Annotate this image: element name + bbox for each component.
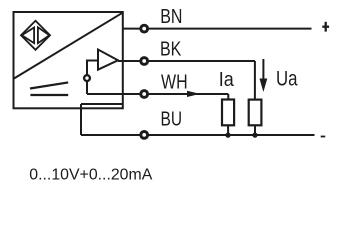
svg-text:BK: BK	[160, 39, 182, 61]
svg-text:0...10V+0...20mA: 0...10V+0...20mA	[29, 167, 152, 184]
svg-text:BN: BN	[160, 5, 182, 28]
svg-text:Ia: Ia	[219, 69, 235, 91]
svg-text:Ua: Ua	[276, 67, 298, 91]
svg-text:WH: WH	[161, 72, 188, 94]
svg-text:BU: BU	[161, 108, 183, 130]
